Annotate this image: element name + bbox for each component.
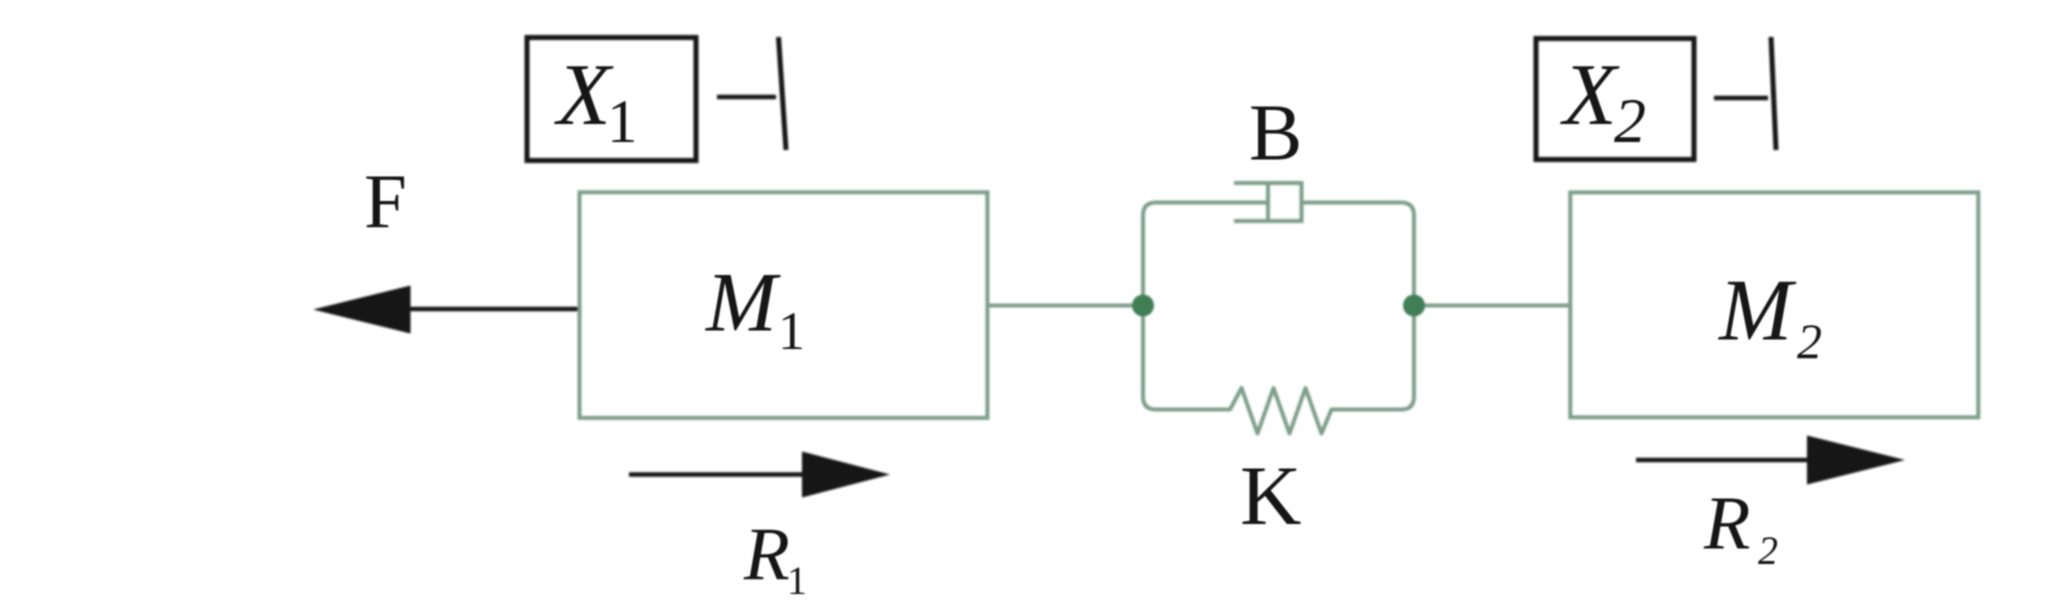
reference mark after X2: [1714, 37, 1776, 150]
svg-text:X: X: [554, 47, 614, 144]
wire M1 to left node: [987, 304, 1138, 308]
label X2: [1560, 47, 1646, 156]
displacement box X2: [1536, 39, 1694, 160]
svg-text:B: B: [1249, 90, 1302, 178]
label M2: [1717, 263, 1822, 369]
svg-text:1: 1: [778, 301, 805, 361]
wire right node to M2: [1414, 304, 1570, 308]
label R2: [1703, 482, 1778, 574]
svg-text:2: 2: [1614, 85, 1646, 156]
node right junction: [1403, 295, 1425, 317]
label X1: [554, 47, 638, 156]
displacement box X1: [527, 38, 696, 161]
mass block M1: [580, 192, 988, 418]
force arrow F (pointing left from M1): [313, 286, 578, 334]
svg-text:R: R: [1703, 482, 1750, 566]
reaction arrow R2 (pointing right under M2): [1636, 436, 1905, 485]
svg-text:X: X: [1560, 47, 1620, 144]
parallel loop with spring K (zigzag in bottom branch): [1143, 203, 1414, 434]
label M1: [705, 256, 805, 362]
damper B (dashpot symbol in top branch): [1234, 181, 1302, 223]
svg-text:2: 2: [1797, 313, 1822, 369]
svg-text:M: M: [1717, 263, 1797, 360]
mass block M2: [1570, 192, 1978, 417]
node left junction: [1132, 295, 1154, 317]
reaction arrow R1 (pointing right under M1): [629, 452, 890, 498]
label R1: [743, 513, 807, 602]
svg-text:M: M: [705, 256, 781, 350]
reference mark after X1: [717, 37, 786, 150]
svg-text:2: 2: [1758, 528, 1778, 573]
svg-text:F: F: [364, 158, 407, 244]
svg-text:1: 1: [607, 89, 638, 156]
svg-text:K: K: [1240, 449, 1301, 543]
svg-text:R: R: [743, 513, 790, 596]
svg-text:1: 1: [787, 558, 807, 602]
